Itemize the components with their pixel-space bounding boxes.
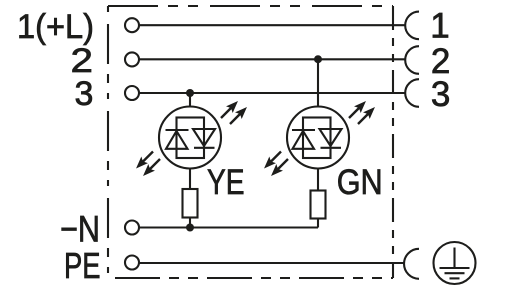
wire PE <box>140 262 405 264</box>
LED U1 YE circle <box>159 107 221 169</box>
wire row 1 <box>140 24 405 26</box>
LED U2 right diode triangle <box>320 129 342 146</box>
LED U1 right diode cathode bar <box>194 147 215 149</box>
terminal 1(+L) <box>125 18 139 32</box>
wire -N <box>140 226 319 228</box>
terminal PE <box>125 256 139 270</box>
wire LED GN drop from row 2 <box>317 59 319 107</box>
svg-text:1: 1 <box>430 6 449 45</box>
junction node row3/YE <box>186 89 194 97</box>
enclosure border top <box>108 5 393 7</box>
wire resistor R1 to -N <box>189 218 191 228</box>
svg-text:YE: YE <box>207 162 245 202</box>
pin contact PE <box>404 249 419 279</box>
LED U1 left diode triangle <box>166 131 188 149</box>
LED U2 emission arrows bottom-left <box>261 148 285 172</box>
wire row 3 <box>140 92 405 94</box>
svg-text:−N: −N <box>60 209 100 250</box>
svg-text:GN: GN <box>337 162 383 202</box>
earth symbol bar 2 <box>445 272 465 274</box>
wire row 2 <box>140 58 405 60</box>
LED U2 left diode triangle <box>293 131 315 149</box>
wire LED GN to resistor <box>317 169 319 191</box>
earth symbol bar 3 <box>450 277 460 279</box>
LED U2 emission arrows top-right <box>346 98 370 122</box>
wire LED YE to resistor <box>189 169 191 190</box>
earth symbol bar 1 <box>440 267 470 269</box>
pin contact 3 <box>405 79 419 107</box>
svg-text:PE: PE <box>64 245 101 286</box>
svg-text:3: 3 <box>75 75 94 113</box>
terminal 3 <box>125 86 139 100</box>
svg-text:3: 3 <box>431 75 450 114</box>
svg-text:1(+L): 1(+L) <box>17 8 94 46</box>
wire LED YE anode drop <box>189 93 191 107</box>
junction node -N/R1 <box>186 224 194 232</box>
wire resistor R2 to -N <box>317 219 319 228</box>
LED U2 right diode cathode bar <box>321 147 342 149</box>
LED U2 frame <box>303 118 331 159</box>
resistor R1 <box>183 189 198 218</box>
resistor R2 <box>311 191 326 219</box>
LED U2 GN circle <box>287 107 349 169</box>
junction node row2/GN <box>314 55 322 63</box>
LED U1 emission arrows bottom-left <box>133 148 157 172</box>
LED U2 left diode cathode bar <box>292 129 315 131</box>
terminal -N <box>125 221 139 235</box>
LED U1 emission arrows top-right <box>218 98 242 122</box>
terminal 2 <box>125 52 139 66</box>
pin contact 2 <box>405 46 419 74</box>
enclosure border left <box>107 6 109 275</box>
enclosure border right <box>392 6 394 278</box>
LED U1 frame <box>177 118 205 159</box>
LED U1 right diode triangle <box>193 129 215 146</box>
pin contact 1 <box>405 12 419 40</box>
earth symbol circle <box>434 242 476 284</box>
LED U1 left diode cathode bar <box>166 129 189 131</box>
enclosure border bottom <box>115 277 393 279</box>
earth symbol stem <box>453 248 455 269</box>
